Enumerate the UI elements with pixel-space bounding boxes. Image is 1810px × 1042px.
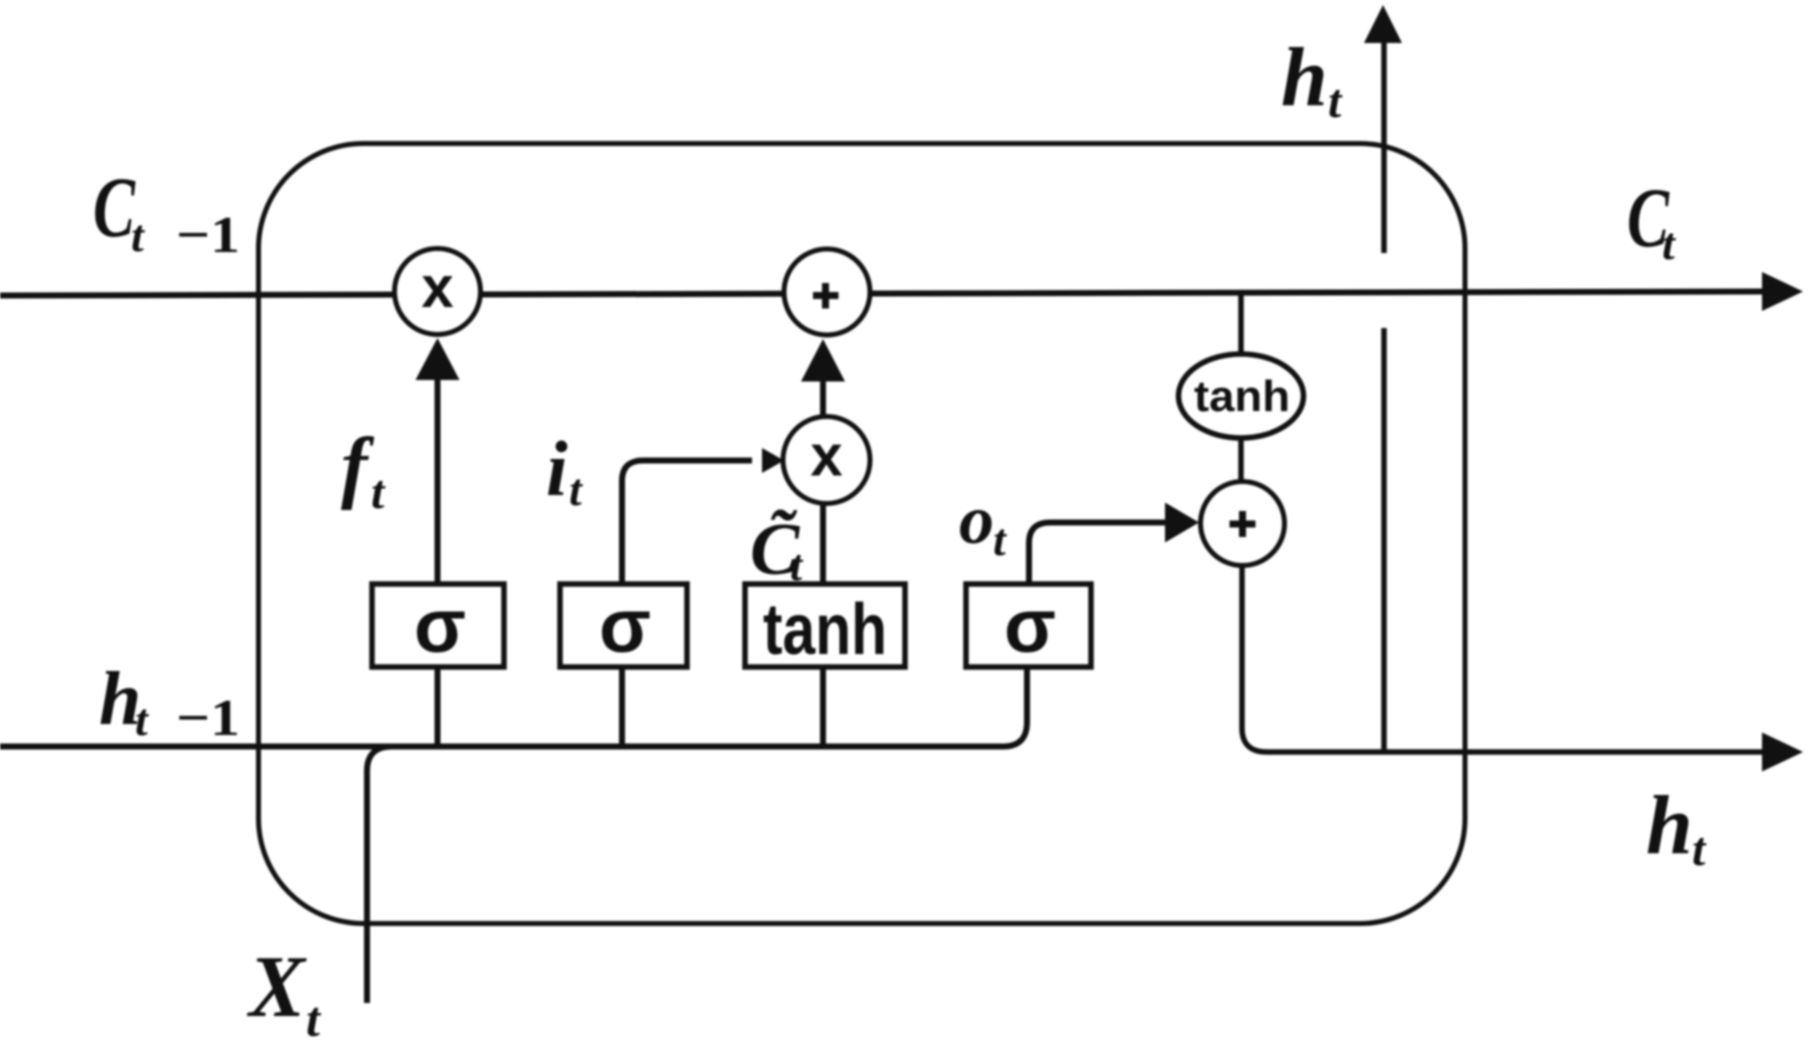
svg-text:o: o [959, 482, 994, 559]
svg-text:t: t [1328, 75, 1343, 128]
svg-text:X: X [246, 939, 307, 1036]
svg-text:tanh: tanh [1194, 372, 1290, 421]
svg-text:x: x [810, 424, 842, 489]
svg-text:t: t [135, 694, 149, 745]
svg-text:t: t [1662, 218, 1676, 269]
svg-text:t: t [131, 210, 145, 261]
svg-text:t: t [993, 514, 1007, 565]
svg-text:tanh: tanh [763, 590, 887, 670]
svg-text:σ: σ [1004, 584, 1056, 669]
svg-text:h: h [1646, 779, 1693, 872]
svg-text:t: t [306, 991, 322, 1042]
svg-text:σ: σ [414, 584, 466, 669]
svg-text:−1: −1 [176, 207, 240, 264]
svg-text:t: t [1692, 823, 1707, 876]
svg-text:C: C [93, 159, 136, 255]
svg-text:t: t [371, 466, 386, 519]
svg-text:t: t [569, 464, 583, 515]
svg-text:t: t [790, 541, 804, 590]
svg-text:σ: σ [599, 584, 651, 669]
svg-text:x: x [421, 255, 453, 320]
svg-text:h: h [1281, 31, 1328, 124]
svg-text:i: i [546, 425, 568, 512]
svg-text:−1: −1 [176, 690, 240, 747]
